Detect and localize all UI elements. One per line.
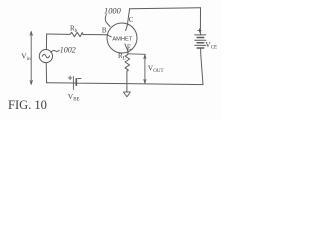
svg-text:VCE: VCE (205, 40, 217, 51)
op-amp-style circle of AMHET U1000 (107, 23, 137, 53)
AMHET internal lead stub B (107, 35, 111, 37)
ground symbol (124, 92, 131, 97)
svg-text:RL: RL (118, 52, 126, 62)
wire emitter E down from AMHET (127, 51, 129, 54)
svg-text:VOUT: VOUT (148, 63, 164, 74)
wire from resistor Rb to base B of AMHET (83, 34, 107, 36)
svg-text:1002: 1002 (60, 46, 76, 55)
battery VBE short plate (75, 79, 77, 85)
svg-text:C: C (129, 16, 134, 24)
wire from battery VCE down to bottom rail (201, 48, 203, 85)
minus sign of VBE (78, 78, 81, 80)
svg-text:E: E (127, 44, 131, 52)
AMHET internal lead stub C (126, 26, 128, 31)
svg-text:Vin: Vin (21, 51, 31, 62)
battery VCE plates (195, 34, 206, 36)
svg-text:AMHET: AMHET (112, 36, 132, 42)
plus sign of VCE (198, 29, 201, 32)
node tick from E node to Vout arrow (128, 53, 146, 56)
Vout dimension arrow (144, 57, 146, 82)
leader line for 1000 (105, 15, 110, 27)
leader line for 1002 (51, 50, 60, 52)
wire top-left segment from source branch to resistor Rb (47, 33, 70, 35)
resistor Rb zigzag (70, 32, 83, 36)
wire collector C up (127, 9, 129, 26)
wire top-right horizontal to VCE battery (130, 8, 201, 9)
svg-text:VBE: VBE (68, 92, 80, 103)
source 1002 circle (AC signal source) (39, 50, 52, 63)
wire stub to ground (126, 84, 128, 93)
svg-text:FIG. 10: FIG. 10 (8, 98, 47, 112)
resistor RL zigzag vertical (125, 55, 130, 72)
battery VBE long plate (72, 76, 74, 89)
svg-text:B: B (102, 26, 107, 34)
sine wave inside source (42, 54, 49, 57)
wire bottom rail (47, 83, 203, 85)
plus sign of VBE (68, 76, 72, 80)
wire from resistor RL to bottom rail (126, 71, 128, 83)
wire left branch vertical (Vin source branch) (45, 34, 47, 83)
AMHET internal lead stub E (125, 44, 128, 51)
wire right column down to battery VCE (199, 8, 201, 35)
svg-text:1000: 1000 (104, 6, 122, 15)
Vin dimension arrow (30, 34, 32, 83)
